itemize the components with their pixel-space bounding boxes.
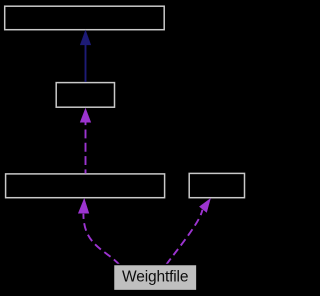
node box lower-right (small class)	[189, 173, 244, 197]
purple right curve arrowhead	[200, 199, 211, 213]
node box lower-left (wide class)	[6, 174, 165, 198]
wire: purple dashed left curve from Weightfile	[83, 214, 119, 265]
wire: purple dashed right curve from Weightfile	[166, 210, 202, 265]
svg-text:Weightfile: Weightfile	[122, 269, 188, 286]
wire: blue inheritance arrow shaft	[85, 44, 87, 82]
wire: purple dashed vertical edge	[85, 122, 87, 173]
purple vertical arrowhead	[80, 109, 90, 123]
node Weightfile (current node)	[114, 265, 197, 291]
purple left curve arrowhead	[78, 199, 88, 213]
node box top (base class)	[5, 6, 165, 30]
node box middle (derived class)	[56, 83, 114, 108]
blue inheritance arrowhead	[80, 31, 90, 45]
